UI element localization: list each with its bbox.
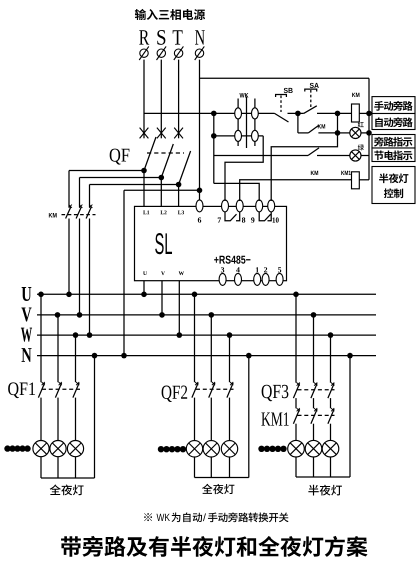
contactor KM1 linkage (dashed) — [298, 414, 335, 416]
note mark ※ — [144, 513, 152, 521]
coil KM label — [352, 93, 359, 97]
wire terminal7 riser — [225, 136, 263, 201]
wire terminal10 riser to lamp node — [271, 133, 337, 201]
wire SL W output — [178, 281, 180, 335]
wire KM1 pole1 to lamp — [295, 424, 297, 441]
wire group3 bottom common — [296, 476, 350, 478]
node N bus x124 — [121, 353, 127, 359]
node W bus x330.5 — [328, 332, 334, 338]
wire green row from riser A — [214, 155, 308, 157]
wire QF2 pole2 to lamp — [210, 398, 212, 441]
wire lamp1-3 bottom — [75, 457, 77, 478]
wire T branch to KM — [90, 184, 179, 186]
wire KM1 pole3 to lamp — [330, 424, 332, 441]
wire QF3-KM1 link 3 — [330, 398, 332, 408]
label bus U — [22, 287, 32, 301]
contactor KM main contact 3 tick — [89, 205, 92, 208]
node N junction — [197, 188, 203, 194]
breaker QF3 contact3 tick — [331, 383, 334, 386]
wire KM pole1 in — [68, 171, 70, 208]
switch WK contact top-right — [252, 108, 259, 119]
label QF3 — [262, 385, 289, 401]
node W bus x179.3 — [177, 332, 183, 338]
wire QF1 pole1 drop — [40, 294, 42, 382]
wire QF1 pole2 drop — [57, 315, 59, 382]
label 4 — [236, 267, 240, 272]
node control feed / riser A — [211, 111, 217, 117]
bus W — [37, 334, 376, 336]
label phase N — [195, 30, 205, 44]
node W bus x229.5 — [227, 332, 233, 338]
breaker QF arm R — [144, 137, 156, 171]
label 2 — [264, 267, 267, 272]
text +RS485- — [214, 256, 250, 264]
label KM1 — [261, 412, 288, 425]
lamp group1 1 — [33, 441, 49, 457]
wire N to terminal 6 — [199, 190, 201, 201]
text SL — [155, 233, 172, 254]
label 3 — [221, 267, 224, 272]
breaker QF2 contact1 tick — [195, 382, 198, 385]
contactor KM linkage (dashed) — [62, 214, 96, 216]
breaker QF2 contact2 arm — [209, 383, 215, 398]
wire KM coil to bus — [359, 112, 369, 114]
title 带旁路及有半夜灯和全夜灯方案 — [61, 536, 367, 557]
terminal 6 — [196, 200, 203, 212]
wire riser A down — [213, 113, 215, 183]
wire QF T output down to SL L3 — [178, 185, 180, 207]
breaker QF arm T — [179, 151, 191, 185]
contactor KM main contact 1 tick — [69, 205, 72, 208]
wire QF3 pole2 drop — [313, 315, 315, 383]
label QF1 — [8, 382, 35, 398]
note cjk part1 为自动 — [172, 513, 203, 523]
node V bus x79.5 — [77, 312, 83, 318]
breaker QF1 contact1 tick — [42, 382, 45, 385]
lamp group3 3 — [322, 440, 339, 457]
pushbutton SB contact arm — [275, 113, 289, 122]
wire QF3 pole1 drop — [295, 294, 297, 382]
lamp group3 2 — [305, 440, 322, 457]
terminal 2 (bottom) — [262, 273, 269, 285]
node N bus x94.5 — [92, 353, 98, 359]
breaker QF1 contact2 arm — [55, 383, 61, 398]
wire QF1 pole3 to lamp — [75, 398, 77, 441]
wire lamp1-1 bottom — [40, 457, 42, 478]
node QF T output — [176, 182, 182, 188]
lamp group2 2 — [203, 441, 219, 457]
wire KM pole2 out to V bus — [79, 219, 81, 315]
breaker QF2 linkage (dashed) — [196, 388, 234, 390]
note slash — [203, 513, 206, 521]
node U bus x144.0 — [141, 292, 147, 298]
label bus W — [21, 328, 32, 342]
box 自动旁路 — [372, 114, 415, 130]
breaker QF2 contact3 tick — [230, 382, 233, 385]
breaker QF3 contact3 arm — [328, 384, 334, 399]
wire N riser down to N bus — [123, 190, 125, 355]
node V bus x313.5 — [311, 312, 317, 318]
note WK text — [157, 514, 170, 521]
switch WK column2 wire — [254, 99, 256, 147]
label 全夜灯 group2 — [202, 484, 234, 494]
wire QF3-KM1 link 1 — [295, 398, 297, 408]
wire SB to SA — [288, 112, 304, 114]
wire QF1 pole3 drop — [75, 335, 77, 382]
wire group2 bottom common — [195, 477, 249, 479]
box 节电指示 — [372, 148, 415, 162]
breaker QF3 contact1 arm — [293, 384, 299, 399]
wire KM pole1 out to U bus — [68, 219, 70, 295]
switch SA actuator — [305, 89, 317, 91]
wire terminal8 riser to KM1 coil — [240, 180, 352, 201]
node N bus x350 — [347, 353, 353, 359]
node QF S output — [159, 175, 165, 181]
wire self-hold branch down — [297, 113, 299, 132]
node V bus x162 — [159, 312, 165, 318]
lamp group2 3 — [221, 441, 237, 457]
node V bus x57.5 — [55, 312, 61, 318]
wire QF R output down to SL L1 — [143, 171, 145, 207]
wire QF S output down to SL L2 — [160, 178, 162, 207]
switch WK contact bottom-right — [252, 130, 259, 141]
text 半夜灯 — [379, 173, 408, 183]
pushbutton SB label — [284, 88, 293, 93]
label KM (bypass contactor) — [49, 213, 57, 218]
pushbutton SB actuator — [276, 95, 287, 98]
wire QF2 pole1 drop — [194, 294, 196, 382]
label U — [143, 271, 147, 275]
node U bus x41 — [38, 292, 44, 298]
label KM (aux contact) — [318, 124, 325, 128]
label 7 — [218, 217, 221, 222]
wire QF1 pole2 to lamp — [57, 398, 59, 441]
wire T down to QF — [178, 60, 180, 139]
label QF — [110, 149, 130, 165]
controller SL box — [135, 206, 287, 280]
text 控制 — [384, 188, 403, 198]
box 半夜灯控制 — [372, 167, 415, 204]
breaker QF2 contact2 tick — [212, 382, 215, 385]
node KM coil input — [335, 111, 341, 117]
wire terminal9 riser — [214, 183, 259, 201]
switch WK shaft — [246, 97, 248, 149]
wire SA to KM coil — [317, 112, 352, 114]
terminal 5 (bottom) — [276, 273, 283, 285]
ellipsis dots group3 — [258, 446, 264, 452]
source terminal R — [139, 46, 149, 60]
wire QF1 pole1 to lamp — [40, 398, 42, 441]
wire green lamp to bus — [361, 155, 369, 157]
contactor KM1 contact1 tick — [297, 408, 300, 411]
terminal 3 (bottom) — [219, 273, 226, 285]
node W bus x89.5 — [87, 332, 93, 338]
wire aux contact to lamp node — [318, 132, 337, 134]
wire lamp2-3 bottom — [229, 457, 231, 478]
contactor KM1 contact1 arm — [293, 409, 299, 424]
wire WK bottom row — [214, 135, 263, 137]
wire lamp1-2 bottom — [57, 457, 59, 478]
wire QF2 pole2 drop — [210, 315, 212, 382]
lamp 旁路指示 red indicator — [350, 127, 361, 138]
breaker QF3 linkage (dashed) — [298, 389, 335, 391]
source terminal S — [157, 46, 167, 60]
breaker QF fixed contact phase S — [157, 128, 166, 139]
contactor KM1 contact2 tick — [314, 408, 317, 411]
coil KM1 label — [341, 171, 351, 175]
box 手动旁路 — [372, 97, 415, 114]
coil KM1 (half-night contactor coil) — [352, 172, 360, 189]
node N bus x248.8 — [246, 353, 252, 359]
bus N — [37, 355, 376, 357]
wire KM pole2 in — [79, 178, 81, 208]
box 旁路指示 — [372, 135, 415, 149]
switch WK label — [240, 93, 249, 98]
contactor KM main contact 3 arm — [86, 207, 91, 219]
terminal 8 — [236, 200, 243, 212]
lamp group3 1 — [288, 440, 305, 457]
wire N to left riser — [124, 189, 200, 191]
label 9 — [251, 217, 254, 222]
wire lamp2-2 bottom — [210, 457, 212, 478]
switch SA label — [310, 83, 319, 88]
source terminal N — [195, 46, 205, 60]
wire S branch to KM — [80, 177, 162, 179]
wire KM pole3 out to W bus — [89, 219, 91, 336]
wire group1 bottom common — [41, 477, 95, 479]
source terminal T — [174, 46, 184, 60]
contact KM aux (green lamp) arm — [308, 148, 319, 156]
wire S down to QF — [160, 60, 162, 139]
wire SL V output — [161, 281, 163, 315]
wire self-hold row — [298, 132, 309, 134]
label 绿 (green) — [358, 144, 364, 150]
wire KM1 coil to bus — [359, 179, 369, 181]
wire QF3-KM1 link 2 — [313, 398, 315, 408]
wire control bus (right vertical) — [368, 78, 370, 180]
wire SL U output — [143, 281, 145, 295]
wire lamp2-1 bottom — [194, 457, 196, 478]
contactor KM main contact 1 arm — [66, 207, 71, 219]
wire control feed from R — [144, 112, 275, 114]
text 自动旁路 — [375, 117, 412, 127]
breaker QF3 contact2 arm — [311, 384, 317, 399]
bus V — [37, 314, 376, 316]
wire lamp3-2 bottom — [313, 457, 315, 477]
label 1 — [256, 267, 259, 272]
node red lamp input — [335, 130, 341, 136]
label 红 (red) — [358, 122, 364, 128]
node QF R output — [141, 168, 147, 174]
wire lamp3-3 bottom — [330, 457, 332, 477]
text 手动旁路 — [374, 101, 412, 111]
terminal 7 — [222, 200, 229, 212]
terminal 4 (bottom) — [235, 273, 242, 285]
breaker QF2 contact3 arm — [227, 383, 233, 398]
label bus V — [21, 307, 31, 321]
wire group3 N return — [349, 356, 351, 477]
text 旁路指示 — [374, 137, 412, 147]
breaker QF arm S — [161, 144, 173, 178]
wire group1 N return — [94, 356, 96, 478]
wire QF3 pole3 drop — [330, 335, 332, 383]
label 全夜灯 group1 — [50, 484, 84, 495]
breaker QF1 contact1 arm — [38, 383, 44, 398]
label 半夜灯 group3 — [308, 485, 342, 496]
label L3 — [178, 210, 184, 214]
ellipsis dots group2 — [158, 446, 164, 452]
node U bus x296 — [293, 292, 299, 298]
switch WK column1 wire — [237, 99, 239, 147]
wire group2 N return — [248, 356, 250, 478]
label V — [161, 271, 165, 275]
breaker QF2 contact1 arm — [192, 383, 198, 398]
node U bus x194.5 — [192, 292, 198, 298]
breaker QF fixed contact phase T — [174, 128, 183, 139]
node riser A / WK bottom row — [211, 133, 217, 139]
label W — [179, 271, 184, 275]
label L1 — [143, 211, 149, 215]
wire R branch to KM — [69, 170, 144, 172]
contactor KM1 contact3 arm — [328, 409, 334, 424]
breaker QF1 contact3 tick — [76, 382, 79, 385]
node SB out / self-hold branch — [295, 111, 301, 117]
switch SA contact arm — [304, 106, 317, 114]
wire N down — [199, 60, 201, 191]
label 10 — [273, 217, 279, 222]
wire QF2 pole1 to lamp — [194, 398, 196, 441]
contact 7-8 symbol — [225, 212, 237, 221]
wire QF2 pole3 to lamp — [229, 398, 231, 441]
label 6 — [198, 217, 201, 222]
label QF2 — [162, 386, 188, 402]
wire lamp3-1 bottom — [295, 457, 297, 477]
text 节电指示 — [374, 150, 412, 160]
label KM (green lamp contact) — [311, 171, 318, 175]
label bus N — [22, 348, 32, 362]
lamp group1 2 — [50, 441, 66, 457]
label: 输入三相电源 (three-phase input power) — [135, 9, 205, 20]
note cjk part2 手动旁路转换开关 — [208, 512, 289, 522]
node U bus x69 — [66, 292, 72, 298]
contactor KM1 contact3 tick — [331, 408, 334, 411]
wire to red lamp — [338, 132, 350, 134]
label L2 — [160, 210, 166, 214]
breaker QF1 contact3 arm — [73, 383, 79, 398]
lamp group2 1 — [186, 441, 202, 457]
label phase T — [173, 30, 183, 44]
label 8 — [242, 217, 245, 222]
label phase R — [139, 30, 149, 44]
terminal 1 (bottom) — [254, 273, 261, 285]
switch SA link (dashed) — [310, 90, 312, 109]
breaker QF fixed contact phase R — [140, 128, 149, 139]
label phase S — [157, 30, 165, 45]
wire QF2 pole3 drop — [229, 335, 231, 382]
switch WK contact top-left — [235, 108, 242, 119]
wire KM1 pole2 to lamp — [313, 424, 315, 441]
contactor KM main contact 2 arm — [76, 207, 81, 219]
node bus at red lamp — [366, 130, 372, 136]
breaker QF3 contact2 tick — [314, 383, 317, 386]
lamp 节电指示 green indicator — [350, 150, 361, 161]
bus U — [37, 293, 376, 295]
switch WK contact bottom-left — [235, 130, 242, 141]
contact KM aux (self-hold) arm — [308, 125, 319, 133]
pushbutton SB link (dashed) — [280, 96, 282, 113]
breaker QF1 contact2 tick — [59, 382, 62, 385]
wire red lamp to bus — [361, 132, 369, 134]
node V bus x211.3 — [209, 312, 215, 318]
contactor KM1 contact2 arm — [311, 409, 317, 424]
ellipsis dots group1 — [4, 445, 10, 451]
wire KM pole3 in — [89, 185, 91, 208]
wire KM coil node down — [337, 113, 339, 132]
node bus at KM coil — [366, 111, 372, 117]
wire R down to QF — [143, 60, 145, 139]
breaker QF3 contact1 tick — [297, 383, 300, 386]
coil KM (bypass contactor coil) — [352, 104, 360, 122]
breaker QF linkage (dashed) — [147, 152, 184, 154]
terminal 9 — [256, 200, 263, 212]
terminal 10 — [268, 200, 275, 212]
wire contact to green lamp — [317, 155, 350, 157]
breaker QF1 linkage (dashed) — [42, 388, 80, 390]
node W bus x75.5 — [73, 332, 79, 338]
label 5 — [278, 267, 281, 272]
contact 9-10 symbol — [259, 212, 271, 221]
wire N branch to control (top) — [200, 77, 370, 79]
contactor KM main contact 2 tick — [79, 205, 82, 208]
lamp group1 3 — [67, 441, 83, 457]
